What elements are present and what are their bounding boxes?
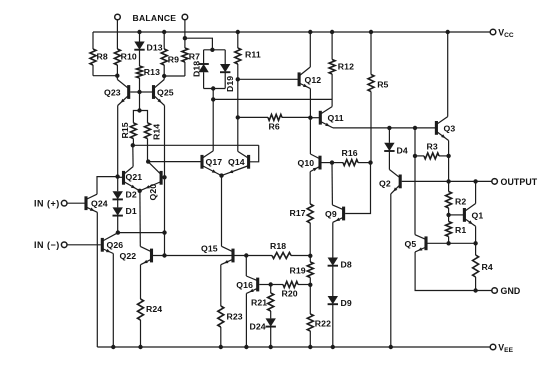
- wire Q16 base: [259, 284, 271, 286]
- wire balance-right down to R7: [184, 20, 186, 48]
- svg-text:R18: R18: [270, 241, 286, 251]
- node dot rail/D24: [269, 345, 273, 349]
- node dot Q3 emitter / output wire: [446, 179, 450, 183]
- node dot R3 left: [413, 154, 417, 158]
- svg-text:IN (−): IN (−): [34, 240, 60, 250]
- resistor R20: [271, 284, 283, 286]
- wire Q12 base: [238, 78, 298, 80]
- transistor Q21: [122, 171, 125, 185]
- wire R11 node down to R6: [237, 79, 239, 117]
- wire Q10 emitter to R17: [309, 172, 311, 204]
- node dot D1 bottom / Q26 collector: [116, 230, 120, 234]
- wire Q24 collector up: [97, 177, 118, 195]
- wire bases down to split: [139, 92, 141, 111]
- resistor R9: [163, 32, 165, 49]
- transistor Q25: [152, 85, 155, 99]
- wire D1 node to Q25 emitter line: [118, 232, 165, 234]
- wire diode box bottom: [204, 88, 226, 90]
- wire Q15 emitter down to R23: [220, 265, 222, 306]
- resistor R5: [370, 32, 372, 75]
- transistor Q16: [256, 278, 259, 292]
- resistor R19: [309, 256, 311, 262]
- svg-text:Q25: Q25: [157, 88, 174, 98]
- wire Q2 base / output node: [402, 180, 492, 182]
- svg-text:Q20: Q20: [148, 184, 158, 201]
- wire diode box top: [204, 49, 226, 51]
- node dot Q17/Q14 emitters: [219, 173, 223, 177]
- wire Q10 collector up: [309, 118, 311, 154]
- svg-text:Q21: Q21: [126, 172, 143, 182]
- svg-text:D19: D19: [225, 76, 235, 92]
- svg-text:R24: R24: [146, 304, 162, 314]
- transistor Q2: [399, 175, 402, 189]
- wire Q22 base to Q15 base: [153, 255, 232, 257]
- svg-text:R16: R16: [342, 148, 358, 158]
- transistor Q26: [101, 238, 104, 252]
- node dot Q20 base: [162, 175, 166, 179]
- svg-text:BALANCE: BALANCE: [133, 13, 177, 23]
- svg-text:R11: R11: [245, 50, 261, 60]
- wire D2 top lead: [117, 177, 119, 192]
- node dot R19 bottom / R20: [308, 283, 312, 287]
- wire Q16 collector up: [245, 256, 247, 277]
- wire Q12 collector to rail: [309, 32, 311, 67]
- wire Q26 emitter down: [112, 254, 114, 348]
- wire Q17 base: [148, 161, 200, 163]
- svg-text:Q9: Q9: [325, 209, 337, 219]
- transistor Q17: [200, 155, 203, 169]
- wire Q9 emitter down to D8: [332, 222, 334, 257]
- wire R8 bottom to R10 bottom: [93, 75, 117, 77]
- svg-text:Q1: Q1: [472, 210, 484, 220]
- resistor R6: [238, 116, 268, 118]
- transistor Q14: [247, 155, 250, 169]
- resistor R16: [332, 162, 343, 164]
- node dot rail/R22: [308, 345, 312, 349]
- node dot box top: [210, 48, 214, 52]
- node dot box bottom: [211, 86, 215, 90]
- wire Q15 base to R18: [235, 255, 273, 257]
- wire IN+ to Q24 base: [67, 202, 85, 204]
- svg-text:R22: R22: [315, 319, 331, 329]
- wire Q9 collector up: [331, 163, 333, 205]
- wire R15 bottom rightwards: [133, 144, 259, 146]
- node dot rail/D13: [137, 30, 141, 34]
- wire R9 bottom to R7 bottom: [164, 75, 185, 77]
- resistor R22: [309, 285, 311, 314]
- wire Q10 base to R16: [322, 162, 333, 164]
- terminal IN(+): [61, 200, 67, 206]
- resistor R2: [446, 192, 452, 209]
- wire emitters down to Q15 collector: [221, 176, 223, 247]
- svg-text:OUTPUT: OUTPUT: [501, 177, 538, 187]
- wire Q5 base wire: [428, 242, 476, 244]
- terminal Vcc: [490, 29, 496, 35]
- resistor R10: [114, 49, 120, 65]
- svg-text:R9: R9: [168, 55, 179, 65]
- resistor R15: [130, 123, 136, 139]
- resistor R13: [139, 50, 141, 66]
- wire Q20 base: [163, 176, 165, 178]
- svg-text:D2: D2: [126, 189, 137, 199]
- node dot R2 bottom / Q1 base: [446, 213, 450, 217]
- svg-text:Q16: Q16: [236, 280, 253, 290]
- node dot Q1 collector / output wire: [473, 179, 477, 183]
- wire R6 node down to Q14 collector: [237, 117, 239, 151]
- resistor R1: [448, 215, 450, 222]
- node dot Q16 collector junction: [244, 253, 248, 257]
- node dot R16 right / R5: [368, 160, 372, 164]
- wire Q11 base: [310, 117, 319, 119]
- node dot R10 bottom: [115, 74, 119, 78]
- node dot rail/R12: [330, 30, 334, 34]
- svg-text:R8: R8: [97, 52, 108, 62]
- wire Q9 base: [345, 163, 370, 214]
- svg-text:Q3: Q3: [444, 123, 456, 133]
- node dot rail/R11: [236, 30, 240, 34]
- wire box bottom down: [212, 89, 214, 100]
- svg-text:R14: R14: [151, 124, 161, 140]
- resistor R17: [307, 204, 313, 223]
- wire Vee bottom rail: [97, 346, 490, 348]
- terminal OUTPUT: [492, 179, 498, 185]
- wire Q3 collector to rail: [447, 32, 449, 117]
- diode D9: [332, 266, 334, 296]
- terminal Vee: [490, 344, 496, 350]
- wire IN- to Q26 base: [67, 244, 101, 246]
- svg-text:R23: R23: [227, 312, 243, 322]
- wire Q25 collector to R9 node: [163, 76, 165, 80]
- svg-text:Q22: Q22: [120, 251, 137, 261]
- node dot R3 right: [446, 154, 450, 158]
- resistor R23: [218, 306, 224, 327]
- transistor Q24: [84, 196, 87, 210]
- svg-text:R5: R5: [377, 80, 388, 90]
- node dot Q16 base / R21 / R20: [269, 282, 273, 286]
- wire Q23 base: [130, 91, 139, 93]
- wire Q2 emitter down to Vee rail: [390, 194, 392, 347]
- node dot rail/Q16 emitter: [244, 345, 248, 349]
- wire down to Q22 base: [164, 233, 166, 256]
- wire Q21 collector to R15: [132, 145, 134, 166]
- transistor Q5: [424, 236, 427, 250]
- node dot D4 top: [387, 126, 391, 130]
- node dot Q21/Q20 emitters: [138, 189, 142, 193]
- transistor Q11: [319, 111, 322, 125]
- svg-text:R4: R4: [482, 262, 493, 272]
- node dot split: [137, 108, 141, 112]
- svg-text:Q24: Q24: [91, 199, 108, 209]
- node dot Q11 base node: [308, 116, 312, 120]
- diode D4: [388, 128, 390, 143]
- diode D24: [270, 311, 272, 318]
- svg-text:R21: R21: [251, 298, 267, 308]
- transistor Q22: [150, 249, 153, 263]
- svg-text:R7: R7: [189, 52, 200, 62]
- node dot box/crossover wire: [211, 97, 215, 101]
- wire down to Q17 collector: [212, 99, 214, 150]
- resistor R14: [145, 123, 151, 139]
- node dot rail/Q2 emitter: [389, 345, 393, 349]
- node dot R18 right / R17 bottom / R19 top: [308, 254, 312, 258]
- svg-text:D13: D13: [147, 43, 163, 53]
- wire Q1 collector up to output wire: [475, 181, 477, 203]
- svg-text:D24: D24: [250, 322, 266, 332]
- svg-text:R20: R20: [282, 288, 298, 298]
- svg-text:Q17: Q17: [206, 157, 223, 167]
- transistor Q15: [231, 249, 234, 263]
- diode D1: [117, 199, 119, 207]
- transistor Q9: [342, 207, 345, 221]
- transistor Q1: [463, 208, 466, 222]
- svg-text:R17: R17: [290, 208, 306, 218]
- wire Q21 base: [118, 176, 122, 178]
- terminal GND: [492, 288, 498, 294]
- wire Q24 emitter down to Vee rail: [96, 212, 98, 347]
- wire balance-left down to R10: [116, 20, 118, 49]
- svg-text:Q2: Q2: [379, 179, 391, 189]
- transistor Q10: [318, 156, 321, 170]
- svg-text:Q15: Q15: [201, 244, 218, 254]
- svg-text:IN (+): IN (+): [34, 199, 60, 209]
- svg-text:R12: R12: [338, 62, 354, 72]
- svg-text:Q11: Q11: [328, 113, 344, 123]
- node dot Q1 emitter / R4 top: [473, 241, 477, 245]
- node dot balance-right/R7 top: [183, 36, 187, 40]
- svg-text:R13: R13: [144, 67, 160, 77]
- node dot rail/R24: [138, 345, 142, 349]
- node dot R14 bottom: [146, 159, 150, 163]
- terminal IN(-): [61, 242, 67, 248]
- wire Q25 emitter down: [164, 106, 166, 233]
- node dot rail/Q3 collector: [446, 30, 450, 34]
- svg-text:D18: D18: [191, 61, 201, 77]
- wire Q11 emitter to output stage rail: [333, 127, 436, 129]
- node dot R15 bottom: [131, 143, 135, 147]
- resistor R21: [270, 285, 272, 294]
- node dot Q10 base / Q9 collector: [330, 160, 334, 164]
- wire R7 top jog to diode box: [185, 38, 213, 50]
- wire Q25 base: [140, 91, 153, 93]
- wire Q5 emitter down and GND wire: [415, 252, 492, 291]
- node dot R9 bottom: [162, 74, 166, 78]
- svg-text:Q26: Q26: [107, 240, 124, 250]
- svg-text:Q5: Q5: [405, 239, 417, 249]
- wire Vcc top rail: [93, 31, 490, 33]
- svg-text:R10: R10: [121, 52, 137, 62]
- node dot R4 bottom / GND wire: [473, 288, 477, 292]
- resistor R11: [237, 32, 239, 48]
- resistor R7: [182, 48, 188, 62]
- wire Q12 emitter down: [309, 89, 311, 118]
- svg-text:R6: R6: [269, 122, 280, 132]
- resistor R12: [331, 32, 333, 60]
- diode D8: [328, 258, 338, 266]
- resistor R24: [138, 299, 144, 320]
- node dot Q21 base / D2 top node: [115, 174, 119, 178]
- transistor Q3: [435, 121, 438, 135]
- node dot R13 bottom / Q23 Q25 bases: [137, 90, 141, 94]
- wire R3-left vertical down to Q5 collector: [414, 128, 416, 235]
- resistor R8: [92, 32, 94, 49]
- node dot rail/D9: [331, 345, 335, 349]
- svg-text:R2: R2: [455, 197, 466, 207]
- node dot rail/Q26 emitter: [111, 345, 115, 349]
- terminal BALANCE right: [182, 14, 188, 20]
- transistor Q20: [160, 171, 163, 185]
- node dot rail/Q12 collector: [308, 30, 312, 34]
- diode D13: [139, 32, 141, 42]
- wire Q23 collector to R10 node: [116, 76, 118, 80]
- node dot R1 bottom: [446, 241, 450, 245]
- wire split bar to R15/R14: [133, 111, 147, 123]
- transistor Q12: [298, 72, 301, 86]
- resistor R4: [475, 243, 477, 255]
- svg-text:Q23: Q23: [104, 88, 121, 98]
- wire Q1 emitter down: [475, 226, 477, 243]
- resistor R3: [415, 155, 424, 157]
- svg-text:Q12: Q12: [305, 75, 322, 85]
- node dot Q22 base: [162, 253, 166, 257]
- wire Q3 emitter down: [448, 141, 450, 156]
- diode D2: [113, 191, 123, 199]
- svg-text:D9: D9: [341, 298, 352, 308]
- svg-text:R3: R3: [427, 142, 438, 152]
- diode D18: [203, 50, 205, 64]
- wire Q16 emitter down to rail: [245, 293, 247, 347]
- resistor R18: [272, 253, 291, 259]
- transistor Q23: [127, 85, 130, 99]
- wire emitters down to Q22 collector: [139, 191, 141, 247]
- svg-text:Q14: Q14: [228, 157, 245, 167]
- node dot R6 left: [236, 115, 240, 119]
- node dot rail/R23: [219, 345, 223, 349]
- wire Q14 base jog: [250, 145, 259, 162]
- svg-text:Q10: Q10: [298, 158, 315, 168]
- svg-text:D1: D1: [126, 206, 137, 216]
- wire Q1 base: [449, 214, 463, 216]
- node dot rail/R5: [369, 30, 373, 34]
- svg-text:D8: D8: [341, 260, 352, 270]
- node dot output-rail / R3 chain top: [413, 126, 417, 130]
- svg-text:D4: D4: [397, 146, 408, 156]
- svg-text:R19: R19: [290, 266, 306, 276]
- node dot on Q25 emitter line: [162, 230, 166, 234]
- svg-text:R1: R1: [455, 225, 466, 235]
- diode D19: [224, 50, 226, 64]
- node dot R11 bottom / Q12 base: [236, 77, 240, 81]
- wire Q3 emitter chain down: [448, 156, 450, 192]
- svg-text:R15: R15: [120, 122, 130, 138]
- svg-text:GND: GND: [501, 286, 521, 296]
- node dot rail/R9: [162, 30, 166, 34]
- wire Q23 emitter down to D2 node: [117, 106, 119, 177]
- terminal BALANCE left: [115, 14, 121, 20]
- wire box bottom across to R12 node: [213, 98, 332, 100]
- wire Q22 emitter down to R24: [140, 265, 142, 299]
